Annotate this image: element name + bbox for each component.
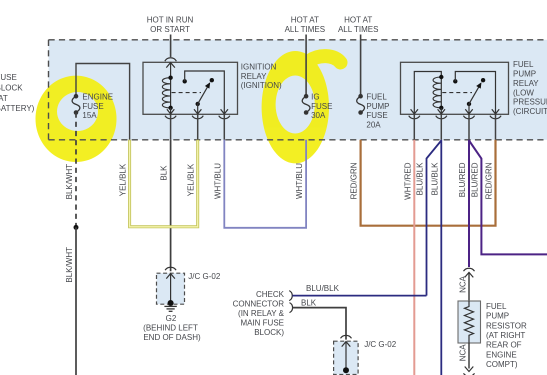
svg-text:WHT/BLU: WHT/BLU	[295, 163, 304, 199]
ignition relay coil	[162, 76, 172, 111]
connector NCA above resistor	[464, 268, 475, 277]
fuel pump relay pin 4 connector	[490, 109, 501, 119]
engine fuse F15	[72, 94, 80, 115]
svg-text:BLK/WHT: BLK/WHT	[65, 164, 74, 200]
svg-text:RELAY: RELAY	[513, 79, 539, 88]
wire RED/GRN U-loop fuel pump fuse to relay pin4	[361, 140, 496, 226]
svg-text:BLU/RED: BLU/RED	[470, 162, 479, 197]
ignition relay pin 2 connector	[192, 109, 203, 119]
svg-text:END OF DASH): END OF DASH)	[143, 333, 201, 342]
svg-text:BLK: BLK	[160, 165, 169, 181]
wire BLU/BLK branch fork	[427, 141, 442, 296]
fuel pump relay pin 3 connector	[463, 109, 474, 119]
fuse block dashed border	[49, 40, 547, 140]
svg-text:BLK: BLK	[301, 298, 317, 307]
svg-text:(BEHIND LEFT: (BEHIND LEFT	[143, 323, 198, 332]
svg-text:ENGINE: ENGINE	[486, 350, 517, 359]
svg-text:WHT/BLU: WHT/BLU	[213, 163, 222, 199]
ground G2	[164, 306, 176, 311]
svg-text:FUEL: FUEL	[486, 302, 507, 311]
svg-text:FUSE: FUSE	[82, 102, 103, 111]
svg-text:(IGNITION): (IGNITION)	[241, 81, 282, 90]
wire pin2 stub to band bottom	[197, 114, 199, 140]
wire fp pin2 stub	[440, 114, 442, 140]
fuel pump relay pin 2 connector	[436, 109, 447, 119]
svg-text:(AT: (AT	[0, 94, 8, 103]
ignition relay top pin connector	[165, 58, 177, 68]
connector below resistor	[464, 367, 475, 375]
wire pin3 stub to band bottom	[223, 114, 225, 140]
label ENGINE FUSE 15A	[82, 92, 113, 120]
svg-text:20A: 20A	[366, 121, 381, 130]
svg-text:HOT AT: HOT AT	[291, 16, 319, 25]
check connector terminal BLU/BLK	[289, 291, 292, 301]
svg-text:(AT RIGHT: (AT RIGHT	[486, 331, 525, 340]
svg-text:IGNITION: IGNITION	[241, 62, 277, 71]
wire WHT/BLU U-loop relay pin3 to IG fuse	[224, 140, 306, 228]
svg-text:FUSE: FUSE	[311, 102, 332, 111]
wire BLK/WHT dashed engine fuse down	[75, 113, 77, 228]
svg-text:HOT AT: HOT AT	[344, 16, 372, 25]
fuel pump fuse F20	[357, 94, 365, 115]
svg-text:CONNECTOR: CONNECTOR	[233, 299, 285, 308]
svg-text:BLU/BLK: BLU/BLK	[416, 162, 425, 196]
fuel pump resistor box	[458, 301, 481, 343]
svg-text:FUEL: FUEL	[366, 92, 387, 101]
svg-text:ENGINE: ENGINE	[82, 92, 113, 101]
svg-text:CHECK: CHECK	[256, 290, 285, 299]
fuse block band background	[49, 40, 547, 140]
label HOT AT ALL TIMES (right)	[338, 16, 378, 34]
svg-text:HOT IN RUN: HOT IN RUN	[147, 16, 194, 25]
wire NCA below resistor	[468, 343, 470, 369]
fuel pump relay pin 1 connector	[409, 109, 420, 119]
label CHECK CONNECTOR (IN RELAY & MAIN FUSE BLOCK)	[233, 290, 285, 337]
label FUSE BLOCK (AT BATTERY)	[0, 73, 35, 113]
label IG FUSE 30A	[311, 92, 332, 120]
ignition relay fixed contact and jumper to pin 3	[183, 71, 225, 114]
wire BLK/WHT solid below splice	[75, 227, 77, 375]
svg-text:ALL TIMES: ALL TIMES	[338, 25, 378, 34]
svg-text:BLK/WHT: BLK/WHT	[65, 247, 74, 283]
svg-text:RED/GRN: RED/GRN	[350, 162, 359, 199]
svg-text:PUMP: PUMP	[366, 102, 389, 111]
svg-text:BATTERY): BATTERY)	[0, 104, 35, 113]
wire BLU/BLK horizontal to check connector	[292, 295, 426, 297]
svg-text:BLU/BLK: BLU/BLK	[430, 162, 439, 196]
label HOT AT ALL TIMES (left)	[285, 16, 325, 34]
svg-text:RED/GRN: RED/GRN	[485, 162, 494, 199]
svg-text:NCA: NCA	[459, 344, 468, 362]
label FUEL PUMP RELAY (LOW PRESSURE (CIRCUIT	[513, 60, 547, 116]
wire YEL/BLK U-loop engine fuse to relay pin2	[130, 140, 198, 227]
svg-text:MAIN FUSE: MAIN FUSE	[240, 318, 284, 327]
svg-text:FUEL: FUEL	[513, 60, 534, 69]
ignition relay switch arm	[196, 78, 215, 114]
fuel pump relay actuation dashed link	[442, 92, 472, 94]
svg-text:(LOW: (LOW	[513, 88, 534, 97]
ignition relay actuation dashed link	[172, 92, 201, 94]
junction connector J/C G-02 left box	[157, 267, 185, 306]
wire feed to fuel pump fuse	[360, 35, 362, 97]
label IGNITION RELAY (IGNITION)	[241, 62, 282, 90]
svg-text:NCA: NCA	[459, 275, 468, 293]
svg-text:(CIRCUIT: (CIRCUIT	[513, 107, 547, 116]
svg-text:PUMP: PUMP	[513, 70, 536, 79]
splice node on BLK/WHT	[74, 225, 79, 230]
wire fp pin3 stub	[468, 114, 470, 140]
wire feed to IG fuse	[305, 35, 307, 97]
svg-text:J/C G-02: J/C G-02	[364, 340, 397, 349]
fuel pump relay box	[401, 62, 509, 114]
svg-text:RESISTOR: RESISTOR	[486, 321, 527, 330]
fuel pump relay switch arm	[467, 78, 486, 114]
wire WHT/RED relay pin1 down	[413, 140, 415, 375]
svg-text:WHT/RED: WHT/RED	[403, 162, 412, 200]
wire BLU/BLK main vertical	[440, 140, 442, 375]
fuel pump relay coil	[433, 75, 443, 110]
wire BLU/RED branch fork to right edge	[469, 141, 547, 255]
svg-text:OR START: OR START	[150, 25, 190, 34]
ignition relay coil ground wire (pin1)	[170, 108, 172, 115]
svg-text:FUSE: FUSE	[366, 111, 387, 120]
wire fp pin1 stub	[413, 114, 415, 140]
svg-text:YEL/BLK: YEL/BLK	[187, 163, 196, 196]
fuel pump relay coil to pin2	[440, 108, 442, 115]
wire NCA to resistor	[468, 272, 470, 301]
fuel pump relay fixed contact and jumper to pin4	[453, 72, 495, 115]
fuel pump relay pin1 internal wire to coil	[414, 72, 441, 115]
svg-text:BLOCK): BLOCK)	[254, 328, 284, 337]
label FUEL PUMP RESISTOR (AT RIGHT REAR OF ENGINE COMPT)	[486, 302, 527, 369]
svg-text:J/C G-02: J/C G-02	[188, 272, 221, 281]
highlighter circle around ENGINE FUSE	[36, 76, 117, 162]
svg-text:30A: 30A	[311, 111, 326, 120]
fuel pump resistor element	[465, 301, 474, 343]
wire BLK horizontal from check connector to JC G-02	[293, 308, 346, 340]
svg-text:(IN RELAY &: (IN RELAY &	[238, 309, 285, 318]
svg-text:15A: 15A	[82, 111, 97, 120]
junction connector J/C G-02 right box	[334, 335, 359, 374]
IG fuse F30	[302, 94, 310, 115]
label G2 (BEHIND LEFT END OF DASH)	[143, 314, 201, 342]
svg-text:BLU/RED: BLU/RED	[458, 162, 467, 197]
check connector terminal BLK	[290, 303, 293, 313]
ignition relay pin 3 connector	[219, 109, 230, 119]
svg-text:RELAY: RELAY	[241, 72, 267, 81]
svg-text:ALL TIMES: ALL TIMES	[285, 25, 325, 34]
svg-text:YEL/BLK: YEL/BLK	[119, 163, 128, 196]
svg-text:BLU/BLK: BLU/BLK	[306, 284, 340, 293]
svg-text:FUSE: FUSE	[0, 73, 17, 82]
svg-text:PRESSURE: PRESSURE	[513, 98, 547, 107]
svg-text:G2: G2	[166, 314, 177, 323]
wire BLK ignition relay to JC G-02	[170, 140, 172, 271]
wire BLU/RED main vertical to resistor	[468, 140, 470, 267]
ignition relay pin 1 connector	[165, 109, 176, 119]
engine fuse feed loop wire	[76, 64, 130, 140]
highlighter circle around IG FUSE	[262, 51, 341, 163]
wire feed to ignition relay	[170, 35, 172, 58]
wire pin1 stub to band bottom	[170, 114, 172, 140]
svg-text:IG: IG	[311, 92, 319, 101]
label FUEL PUMP FUSE 20A	[366, 92, 389, 129]
svg-text:REAR OF: REAR OF	[486, 341, 522, 350]
ignition relay box	[143, 62, 238, 114]
ignition relay coil wire	[170, 62, 172, 77]
svg-text:COMPT): COMPT)	[486, 360, 518, 369]
wire fp pin4 stub	[495, 114, 497, 140]
svg-text:PUMP: PUMP	[486, 312, 509, 321]
label HOT IN RUN OR START	[147, 16, 194, 34]
svg-text:BLOCK: BLOCK	[0, 83, 23, 92]
